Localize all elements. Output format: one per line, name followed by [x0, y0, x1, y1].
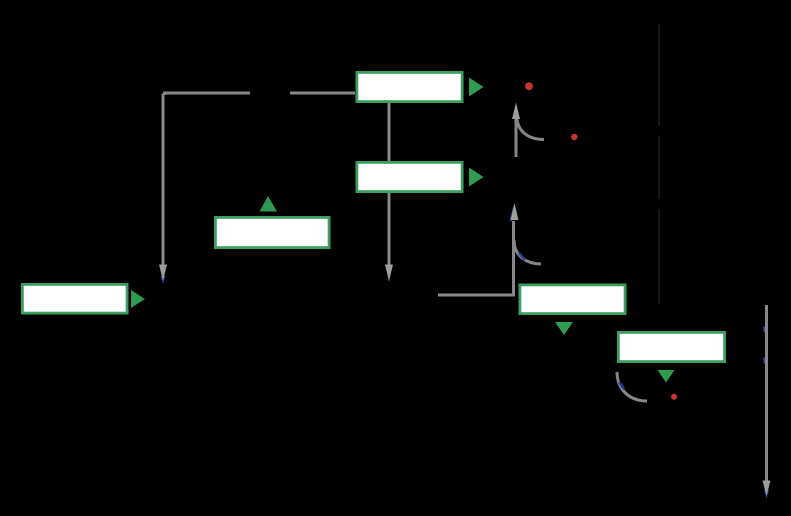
- marker: green down triangle below B6: [658, 370, 675, 383]
- marker: green right triangle of B4: [131, 290, 145, 308]
- node: red dot 1: [525, 82, 533, 90]
- node: red dot 3: [671, 394, 677, 400]
- marker: green down triangle below B5: [555, 322, 573, 335]
- wire: short vertical with up arrow (upper right assembly): [515, 116, 518, 157]
- marker: green right triangle of B2: [469, 168, 484, 187]
- node: red dot 2: [571, 134, 577, 140]
- wire: curve joining from right into right-mid assembly: [514, 240, 541, 264]
- wire: vertical between box B1 and box B2: [388, 102, 391, 162]
- wire: curve joining from right into upper assembly: [517, 114, 545, 140]
- arrowhead: left drop, blue tip: [161, 276, 166, 284]
- faint vertical timeline segment 2: [658, 136, 660, 199]
- box B4 (bottom-left): [22, 284, 127, 313]
- arrowhead: upper assembly pointing up: [512, 103, 520, 120]
- arrowhead: right rail bottom, blue tip: [764, 490, 769, 499]
- wire: horizontal into right-mid assembly: [438, 221, 514, 295]
- wire: vertical from box B2 down to arrow: [388, 192, 391, 265]
- blue tick upper on right rail: [763, 327, 766, 333]
- wire: top horizontal left of label gap with corner down at x=163: [165, 93, 251, 95]
- wire: right vertical rail: [765, 305, 768, 481]
- blue dash on curve: [519, 253, 525, 260]
- box B3 (middle): [215, 217, 329, 247]
- arrowhead: right-mid assembly pointing up, blue fringe: [510, 204, 514, 222]
- blue dash on arc: [619, 382, 624, 389]
- wire: left vertical drop to arrow: [162, 94, 165, 266]
- blue tick lower on right rail: [763, 358, 766, 364]
- box B1 (top): [357, 72, 462, 101]
- box B5 (right-middle): [520, 285, 625, 314]
- wire: top horizontal from box B1 left toward left column (segment right of label gap): [290, 92, 355, 95]
- wire: arc below-left of B6: [617, 372, 647, 401]
- faint vertical timeline segment 3: [658, 209, 660, 304]
- arrowhead: below B2: [385, 265, 393, 282]
- box B2 (second): [357, 162, 462, 191]
- box B6 (bottom-right): [618, 332, 724, 361]
- marker: green up triangle above middle box: [260, 196, 278, 212]
- faint vertical timeline segment 1: [658, 24, 660, 126]
- marker: green right triangle of B1: [469, 78, 484, 97]
